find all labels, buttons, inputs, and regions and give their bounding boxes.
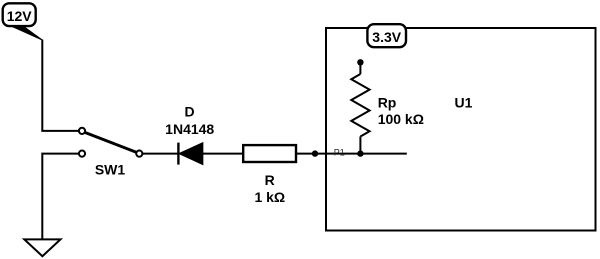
switch SW1 bottom contact	[79, 151, 85, 157]
IC box U1	[326, 28, 596, 231]
junction node Rp bottom	[357, 150, 363, 156]
switch SW1 common pole	[136, 151, 142, 157]
svg-text:3.3V: 3.3V	[372, 29, 401, 45]
resistor R body	[243, 145, 296, 162]
svg-text:12V: 12V	[7, 8, 33, 24]
svg-text:Rp: Rp	[378, 94, 397, 110]
wire switch to diode	[142, 153, 177, 155]
svg-text:R: R	[265, 172, 275, 188]
resistor Rp top node dot	[357, 59, 363, 65]
diode D cathode bar	[177, 143, 179, 165]
svg-text:1 kΩ: 1 kΩ	[254, 189, 285, 205]
diode D triangle	[180, 143, 203, 164]
svg-text:U1: U1	[455, 95, 473, 111]
resistor Rp bottom lead	[359, 137, 361, 154]
switch SW1 top contact	[79, 128, 85, 134]
power flag 3.3V	[367, 24, 406, 47]
wire resistor to pin P1 into U1	[296, 153, 407, 155]
svg-text:1N4148: 1N4148	[165, 121, 214, 137]
svg-text:100 kΩ: 100 kΩ	[378, 111, 424, 127]
wire from 12V down to switch top contact	[42, 40, 79, 131]
wire from ground up to switch bottom contact	[42, 154, 79, 239]
resistor Rp top lead	[359, 62, 361, 74]
svg-text:SW1: SW1	[95, 162, 126, 178]
power flag 12V	[3, 3, 43, 40]
ground	[24, 239, 60, 256]
svg-text:D: D	[185, 104, 195, 120]
wire diode to resistor R	[203, 153, 243, 155]
switch SW1 lever	[85, 132, 137, 152]
svg-text:P1: P1	[334, 148, 345, 158]
junction node at pin P1	[312, 150, 318, 156]
resistor Rp zigzag	[351, 74, 369, 137]
